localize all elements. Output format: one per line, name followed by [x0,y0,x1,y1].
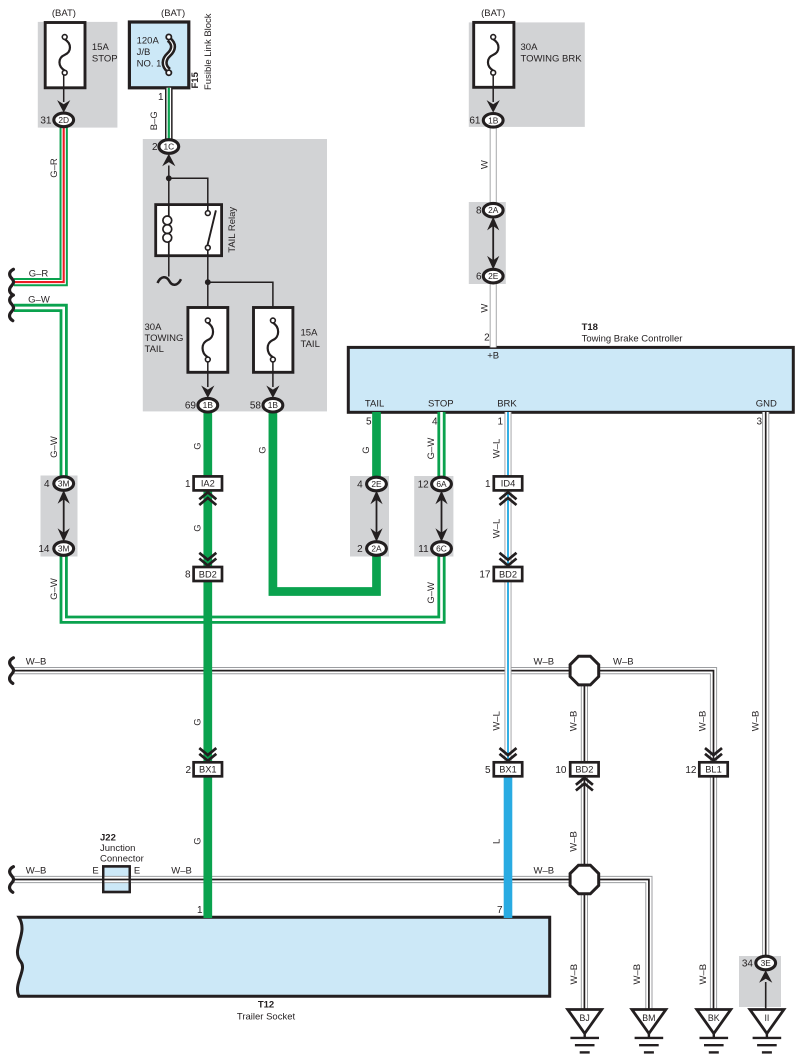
gray panel: 30A TOWING BRK fuse area [469,22,585,127]
svg-text:2D: 2D [58,115,69,125]
svg-text:11: 11 [418,544,429,555]
svg-text:STOP: STOP [92,54,118,65]
connector 1B pin 69 [198,398,218,412]
fusible link block F15 box [129,22,188,88]
lead from 15A STOP fuse to 2D [63,75,65,102]
chevron below BD2 (10) [576,778,593,791]
arrow into connector 3E [759,970,772,983]
lead from 1C arrow to relay node [168,166,170,205]
wire G-W from connector 3M (14) to connector 6C [64,549,442,620]
double arrow between 2A and 2E [492,223,494,264]
svg-text:2E: 2E [488,271,499,281]
svg-text:ID4: ID4 [501,479,515,489]
svg-text:G–R: G–R [49,158,60,178]
connector BL1 pin 12 [699,762,727,776]
svg-text:10: 10 [555,765,567,776]
connector BD2 pin 17 [494,567,522,581]
fuse 15A STOP [45,23,85,88]
svg-text:W: W [480,304,491,313]
svg-text:Fusible Link Block: Fusible Link Block [203,13,214,90]
svg-text:G: G [193,718,204,725]
lead from 15A TAIL fuse to 1B (58) [272,362,274,387]
svg-text:STOP: STOP [428,399,454,410]
connector BX1 pin 2 [194,762,222,776]
svg-text:1: 1 [485,479,491,490]
wire G-W from T18 STOP to connector 6A [437,412,445,484]
svg-text:W–L: W–L [491,439,502,459]
svg-text:G–R: G–R [29,269,49,280]
svg-text:E: E [92,866,98,877]
svg-text:T18: T18 [582,322,598,333]
connector 2D pin 31 [54,113,74,127]
svg-text:GND: GND [756,399,777,410]
double arrow between 6A and 6C [441,497,443,536]
node above TAIL relay [166,175,172,181]
svg-text:BRK: BRK [497,399,517,410]
svg-text:2A: 2A [371,544,382,554]
svg-text:TOWING: TOWING [145,333,184,344]
towing brake controller T18 box [348,347,793,412]
svg-text:W–B: W–B [632,964,643,985]
svg-text:3M: 3M [58,544,70,554]
fuse 30A TOWING TAIL [188,308,228,373]
svg-text:2: 2 [152,142,158,153]
chevron below IA2 [199,492,216,505]
wire G from 1B (58) to connector 2A [273,405,377,591]
double arrow between 3M and 3M [63,496,65,536]
arrow into connector 1C [162,154,175,167]
wire W-B horizontal through J22 to lower octagon [14,876,571,883]
svg-text:TAIL: TAIL [145,344,164,355]
gray panel: 2E/2A connector pair [350,476,389,557]
svg-text:B–G: B–G [149,111,160,130]
svg-text:G–W: G–W [426,582,437,604]
svg-text:BD2: BD2 [199,569,217,579]
svg-text:G–W: G–W [49,436,60,458]
lead from relay coil to break tilde [168,256,170,277]
relay coil [163,205,172,256]
svg-text:Connector: Connector [100,854,144,865]
svg-text:W–B: W–B [171,865,192,876]
lead from 30A TOWING TAIL fuse to 1B (69) [207,362,209,387]
svg-text:69: 69 [185,401,197,412]
svg-text:(BAT): (BAT) [52,8,76,19]
connector IA2 pin 1 [194,476,222,490]
wire L from BX1 (5) to trailer socket pin 7 [504,776,513,918]
svg-text:II: II [764,1013,769,1023]
svg-text:3E: 3E [761,958,772,968]
connector 6A pin 12 [432,477,452,491]
svg-text:W–B: W–B [569,711,580,732]
chevron above BX1 (2) [199,748,216,761]
wire B-G from F15 to connector 1C [165,88,173,147]
trailer socket T12 box [17,917,549,996]
connector 1B pin 58 [263,398,283,412]
svg-text:12: 12 [418,480,430,491]
svg-text:G–W: G–W [426,438,437,460]
connector 3M pin 4 [54,477,74,491]
svg-text:Towing Brake Controller: Towing Brake Controller [582,334,683,345]
svg-text:L: L [491,839,502,844]
svg-text:W–L: W–L [491,711,502,731]
svg-text:E: E [134,866,140,877]
wire W-B from lower octagon to ground BM [598,880,649,1010]
svg-text:6: 6 [476,272,482,283]
connector 2A pin 2 [367,542,387,556]
svg-text:W–B: W–B [698,711,709,732]
svg-text:5: 5 [366,416,372,427]
double arrow between 2E and 2A [376,497,378,536]
fuse 30A TOWING BRK [474,22,514,87]
relay switch contacts [207,205,209,211]
svg-text:1B: 1B [488,115,499,125]
connector 1C pin 2 [159,140,179,154]
gray panel: 6A/6C connector pair [414,476,453,557]
chevron above BD2 (8) [199,553,216,566]
svg-text:BJ: BJ [580,1013,590,1023]
svg-text:TAIL: TAIL [301,339,320,350]
svg-text:6A: 6A [436,479,447,489]
svg-text:IA2: IA2 [201,479,215,489]
svg-text:BD2: BD2 [575,765,593,775]
chevron below ID4 [500,492,517,505]
svg-text:W–B: W–B [698,964,709,985]
lead from 30A TOWING BRK fuse to 1B [492,75,494,102]
connector BD2 pin 8 [194,567,222,581]
wire G from T18 TAIL to connector 2E [372,412,381,484]
svg-text:12: 12 [685,765,697,776]
svg-text:17: 17 [479,570,491,581]
svg-text:W–B: W–B [613,657,634,668]
junction connector J22 box [103,866,130,892]
wire W-B from octagon to BL1 and ground BK [598,671,714,763]
svg-text:2E: 2E [371,479,382,489]
wire W-B from BL1 down to ground BK [710,776,717,1009]
gray panel: 15A STOP fuse area [38,22,118,128]
svg-text:+B: +B [487,351,499,362]
svg-text:BL1: BL1 [705,765,722,775]
gray panel: TAIL relay / fuse area [143,139,327,411]
wire W-B from octagon down to BD2 (10) [581,685,588,763]
wire W-B from T18 GND to connector 3E [762,412,769,963]
svg-text:1B: 1B [268,400,279,410]
break symbol G-W [10,295,14,321]
lead from 3E to ground II [765,982,767,1010]
svg-text:W–B: W–B [569,831,580,852]
svg-text:Trailer Socket: Trailer Socket [237,1012,296,1023]
wire W-L from T18 BRK to BX1 (5) [505,412,512,762]
connector 1B pin 61 [483,114,503,128]
ground BM [632,1010,666,1034]
svg-text:W–B: W–B [569,964,580,985]
svg-text:F15: F15 [190,71,201,88]
svg-text:2A: 2A [488,205,499,215]
svg-text:TAIL Relay: TAIL Relay [227,207,238,253]
svg-text:G: G [193,442,204,449]
svg-text:J22: J22 [100,833,116,844]
gray panel: 2A/2E connector pair [469,202,506,284]
gray panel: 3M connector pair [41,476,78,557]
junction connector J22 border restroke [103,866,130,892]
wire W from 1B (61) to connector 2A (8) [490,124,497,210]
svg-text:30A: 30A [521,42,539,53]
chevron above BL1 (12) [705,748,722,761]
svg-text:(BAT): (BAT) [481,8,505,19]
svg-text:15A: 15A [301,327,319,338]
svg-text:1: 1 [185,479,191,490]
svg-text:G: G [193,837,204,844]
svg-text:8: 8 [185,570,191,581]
chevron above BX1 (5) [500,748,517,761]
svg-text:31: 31 [40,115,52,126]
connector 3M pin 14 [54,542,74,556]
wire from node to relay switch [169,178,208,204]
chevron above BD2 (17) [500,553,517,566]
svg-text:1: 1 [158,92,164,103]
wire W from connector 2E (6) to T18 +B [490,276,497,347]
svg-text:7: 7 [497,905,503,916]
fusible link 120A J/B NO.1 [165,39,173,70]
connector 2E pin 6 [483,269,503,283]
ground BJ [568,1010,602,1034]
svg-text:3: 3 [756,416,762,427]
wire W-B from lower octagon down to ground BJ [581,894,588,1010]
svg-text:58: 58 [250,401,262,412]
connector ID4 pin 1 [494,476,522,490]
svg-text:1: 1 [497,416,503,427]
svg-text:BM: BM [642,1013,655,1023]
svg-text:3M: 3M [58,479,70,489]
svg-text:5: 5 [485,765,491,776]
svg-text:G: G [258,446,269,453]
svg-text:G: G [361,446,372,453]
connector BX1 pin 5 [494,762,522,776]
connector 3E pin 34 [756,956,776,970]
tilde continuation symbol [158,277,182,285]
svg-text:W–B: W–B [750,711,761,732]
junction octagon lower (W-B) [570,865,599,894]
ground II [750,1010,784,1034]
break symbol G-R [10,269,14,295]
fuse 15A TAIL [254,308,293,373]
svg-text:2: 2 [357,544,363,555]
svg-text:1: 1 [197,905,203,916]
svg-text:(BAT): (BAT) [161,8,185,19]
svg-text:4: 4 [44,479,50,490]
svg-text:G–W: G–W [49,578,60,600]
svg-text:W–B: W–B [534,657,555,668]
svg-text:BK: BK [708,1013,720,1023]
svg-text:G–W: G–W [28,294,50,305]
node below relay switch [205,279,211,285]
svg-text:W–B: W–B [534,865,555,876]
svg-text:NO. 1: NO. 1 [137,58,162,69]
connector 2A pin 8 [483,203,503,217]
svg-text:1B: 1B [203,400,214,410]
svg-text:W–B: W–B [26,865,47,876]
svg-text:2: 2 [185,765,191,776]
svg-text:4: 4 [357,480,363,491]
svg-text:1C: 1C [163,142,174,152]
svg-text:61: 61 [469,116,481,127]
connector BD2 pin 10 [570,762,598,776]
svg-text:W–L: W–L [491,519,502,539]
svg-text:W–B: W–B [26,657,47,668]
svg-text:TAIL: TAIL [365,399,384,410]
svg-text:BX1: BX1 [199,765,217,775]
gray panel: 3E connector area [739,956,781,1007]
wire G-R from connector 2D to left edge [14,120,64,282]
svg-text:W: W [480,160,491,169]
lead from relay switch to fuses [207,256,209,308]
ground BK [697,1010,731,1034]
svg-text:120A: 120A [137,36,160,47]
wire G-W from left edge to connector 3M (4) [14,308,64,484]
svg-text:15A: 15A [92,42,110,53]
connector 6C pin 11 [432,542,452,556]
svg-text:8: 8 [476,206,482,217]
svg-text:T12: T12 [258,1000,274,1011]
svg-text:30A: 30A [145,322,163,333]
svg-text:2: 2 [484,333,490,344]
svg-text:34: 34 [742,959,754,970]
svg-text:Junction: Junction [100,843,135,854]
svg-text:4: 4 [432,416,438,427]
wire W-B from BD2 (10) to lower octagon [581,776,588,866]
break symbol W-B lower [10,867,14,893]
TAIL relay U1 box [156,205,222,256]
svg-text:TOWING BRK: TOWING BRK [521,54,583,65]
svg-text:6C: 6C [436,544,447,554]
connector 2E pin 4 [367,477,387,491]
svg-text:G: G [193,524,204,531]
wire G from 1B (69) through IA2, BD2, BX1 to trailer socket pin 1 [203,405,212,918]
break symbol W-B upper [10,658,14,684]
wire W-B horizontal from left edge to junction octagon [14,667,571,674]
svg-text:14: 14 [38,544,50,555]
svg-text:BD2: BD2 [499,569,517,579]
svg-text:J/B: J/B [137,47,151,58]
junction octagon upper (W-B) [570,656,599,685]
svg-text:BX1: BX1 [499,765,517,775]
